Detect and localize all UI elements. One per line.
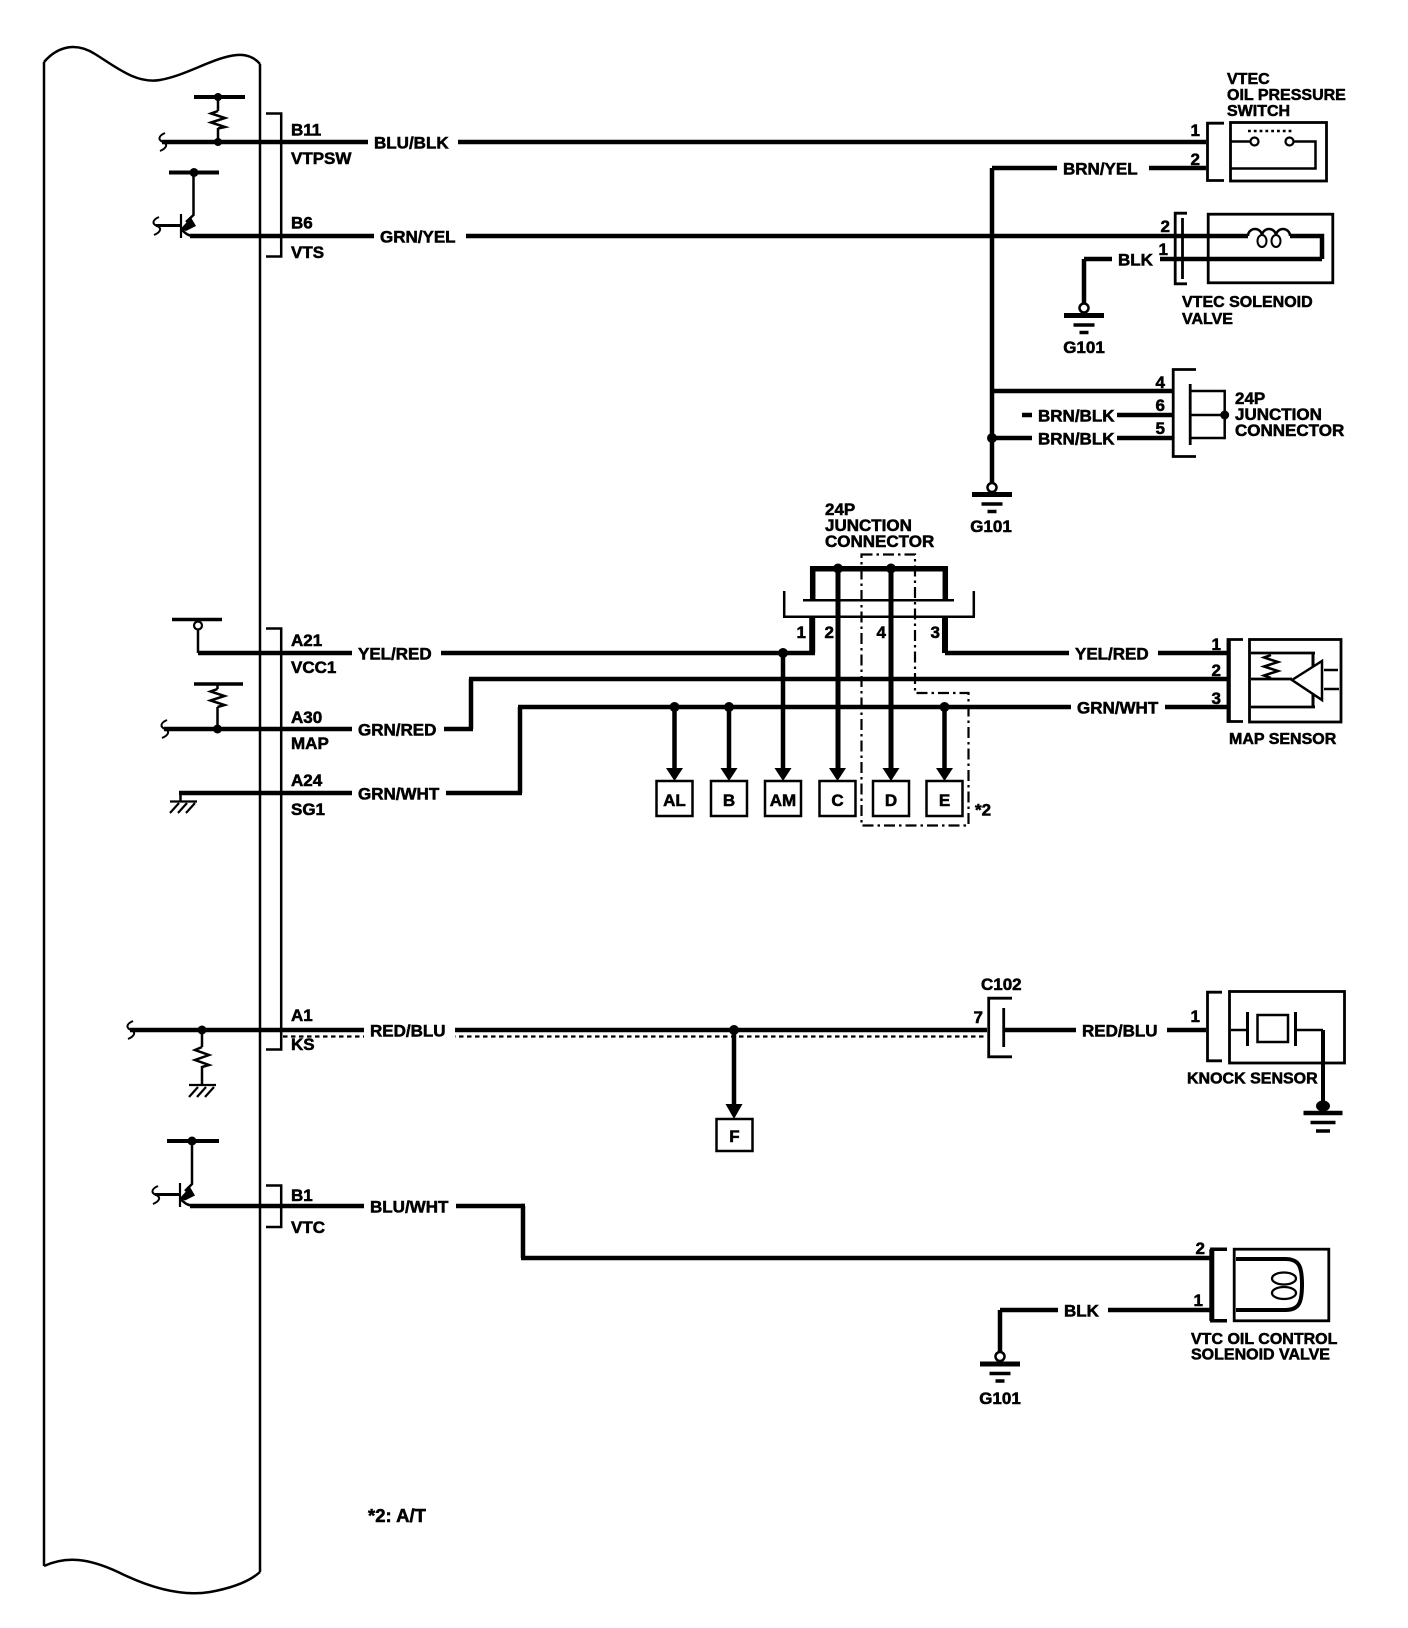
svg-text:1: 1 xyxy=(1159,240,1168,259)
svg-text:2: 2 xyxy=(1191,150,1200,169)
svg-text:*2: A/T: *2: A/T xyxy=(368,1505,427,1526)
svg-text:1: 1 xyxy=(1212,635,1221,654)
svg-text:A21: A21 xyxy=(291,631,322,650)
svg-text:RED/BLU: RED/BLU xyxy=(370,1022,446,1041)
svg-text:C: C xyxy=(831,791,843,810)
svg-text:KS: KS xyxy=(291,1035,315,1054)
svg-text:A24: A24 xyxy=(291,771,323,790)
svg-text:OIL PRESSURE: OIL PRESSURE xyxy=(1227,87,1346,104)
svg-text:*2: *2 xyxy=(975,801,991,820)
svg-text:VTC: VTC xyxy=(291,1218,325,1237)
svg-text:1: 1 xyxy=(797,623,806,642)
svg-text:B1: B1 xyxy=(291,1186,313,1205)
svg-text:A1: A1 xyxy=(291,1006,313,1025)
svg-text:YEL/RED: YEL/RED xyxy=(1075,645,1149,664)
svg-text:MAP SENSOR: MAP SENSOR xyxy=(1229,731,1337,748)
svg-text:2: 2 xyxy=(1212,661,1221,680)
svg-text:7: 7 xyxy=(974,1008,983,1027)
svg-text:B: B xyxy=(723,791,735,810)
svg-text:G101: G101 xyxy=(979,1389,1021,1408)
svg-text:1: 1 xyxy=(1191,121,1200,140)
svg-text:GRN/RED: GRN/RED xyxy=(358,721,436,740)
svg-text:BLU/BLK: BLU/BLK xyxy=(374,134,449,153)
svg-text:2: 2 xyxy=(825,623,834,642)
svg-text:2: 2 xyxy=(1161,217,1170,236)
svg-text:AM: AM xyxy=(770,791,796,810)
svg-text:VTEC SOLENOID: VTEC SOLENOID xyxy=(1182,294,1313,311)
svg-text:6: 6 xyxy=(1156,396,1165,415)
svg-text:4: 4 xyxy=(1156,373,1166,392)
svg-text:3: 3 xyxy=(931,623,940,642)
svg-text:AL: AL xyxy=(663,791,686,810)
svg-text:B11: B11 xyxy=(291,121,321,140)
svg-text:GRN/WHT: GRN/WHT xyxy=(1077,699,1159,718)
svg-text:1: 1 xyxy=(1191,1007,1200,1026)
svg-text:B6: B6 xyxy=(291,214,313,233)
svg-text:SG1: SG1 xyxy=(291,800,325,819)
svg-text:KNOCK SENSOR: KNOCK SENSOR xyxy=(1187,1071,1318,1088)
svg-text:BLU/WHT: BLU/WHT xyxy=(370,1198,449,1217)
svg-text:BLK: BLK xyxy=(1064,1302,1100,1321)
svg-text:VTC OIL CONTROL: VTC OIL CONTROL xyxy=(1191,1331,1338,1348)
svg-text:A30: A30 xyxy=(291,708,322,727)
svg-text:MAP: MAP xyxy=(291,734,329,753)
svg-text:VALVE: VALVE xyxy=(1182,311,1233,328)
svg-text:4: 4 xyxy=(877,623,887,642)
svg-text:3: 3 xyxy=(1212,689,1221,708)
svg-text:VTPSW: VTPSW xyxy=(291,149,352,168)
svg-text:CONNECTOR: CONNECTOR xyxy=(1235,421,1344,440)
svg-text:BLK: BLK xyxy=(1118,251,1154,270)
svg-text:C102: C102 xyxy=(981,975,1022,994)
svg-text:BRN/BLK: BRN/BLK xyxy=(1038,407,1115,426)
svg-text:GRN/YEL: GRN/YEL xyxy=(380,228,456,247)
svg-text:E: E xyxy=(939,791,950,810)
svg-text:BRN/YEL: BRN/YEL xyxy=(1063,160,1138,179)
svg-text:SWITCH: SWITCH xyxy=(1227,103,1290,120)
svg-text:VTS: VTS xyxy=(291,243,324,262)
svg-text:5: 5 xyxy=(1156,419,1165,438)
svg-text:GRN/WHT: GRN/WHT xyxy=(358,785,440,804)
svg-text:G101: G101 xyxy=(1063,338,1105,357)
svg-text:CONNECTOR: CONNECTOR xyxy=(825,532,934,551)
svg-text:RED/BLU: RED/BLU xyxy=(1082,1022,1158,1041)
svg-text:BRN/BLK: BRN/BLK xyxy=(1038,430,1115,449)
svg-text:YEL/RED: YEL/RED xyxy=(358,645,432,664)
svg-text:SOLENOID VALVE: SOLENOID VALVE xyxy=(1191,1347,1330,1364)
svg-text:2: 2 xyxy=(1196,1239,1205,1258)
svg-text:VTEC: VTEC xyxy=(1227,71,1270,88)
svg-text:D: D xyxy=(885,791,897,810)
svg-text:F: F xyxy=(729,1127,739,1146)
svg-text:VCC1: VCC1 xyxy=(291,658,336,677)
svg-text:G101: G101 xyxy=(970,517,1012,536)
svg-text:1: 1 xyxy=(1194,1291,1203,1310)
